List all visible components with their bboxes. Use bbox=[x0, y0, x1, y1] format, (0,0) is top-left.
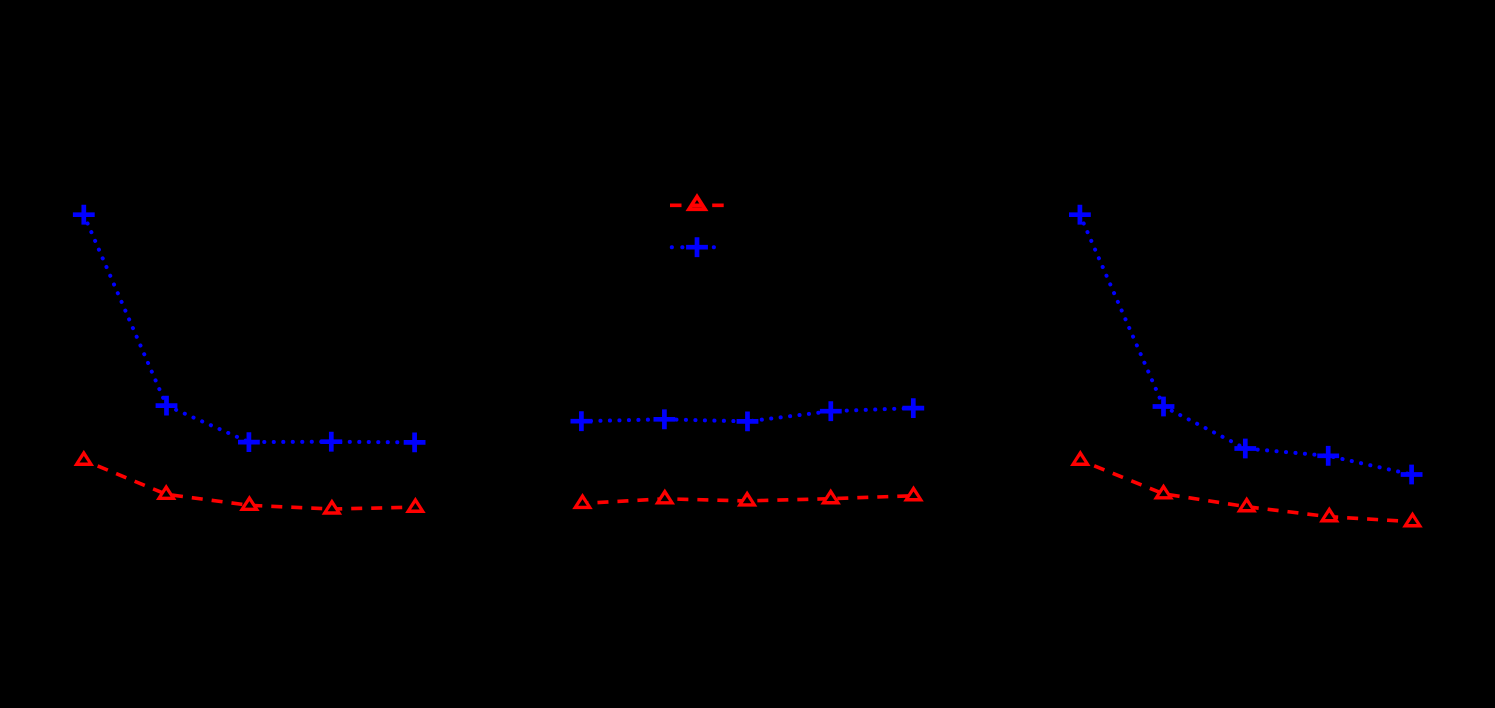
legend red triangle marker bbox=[686, 193, 709, 211]
subplot 2 blue plus markers bbox=[571, 398, 925, 431]
subplot 1 red dashed series line bbox=[84, 460, 416, 509]
subplot 1 blue plus markers bbox=[73, 205, 426, 452]
subplot 2 red dashed series line bbox=[583, 496, 914, 504]
subplot 3 red dashed series line bbox=[1080, 460, 1412, 522]
subplot 3 blue plus markers bbox=[1069, 205, 1423, 485]
subplot 1 red triangle markers bbox=[74, 450, 426, 515]
legend blue dotted handle bbox=[672, 245, 715, 249]
subplot 3 red triangle markers bbox=[1070, 450, 1423, 528]
subplot 2 blue dotted series line bbox=[581, 408, 913, 421]
subplot 2 red triangle markers bbox=[572, 485, 924, 509]
subplot 3 blue dotted series line bbox=[1080, 215, 1412, 475]
legend blue plus marker bbox=[686, 237, 708, 257]
legend red dashed handle bbox=[670, 204, 724, 208]
subplot 1 blue dotted series line bbox=[84, 215, 415, 443]
